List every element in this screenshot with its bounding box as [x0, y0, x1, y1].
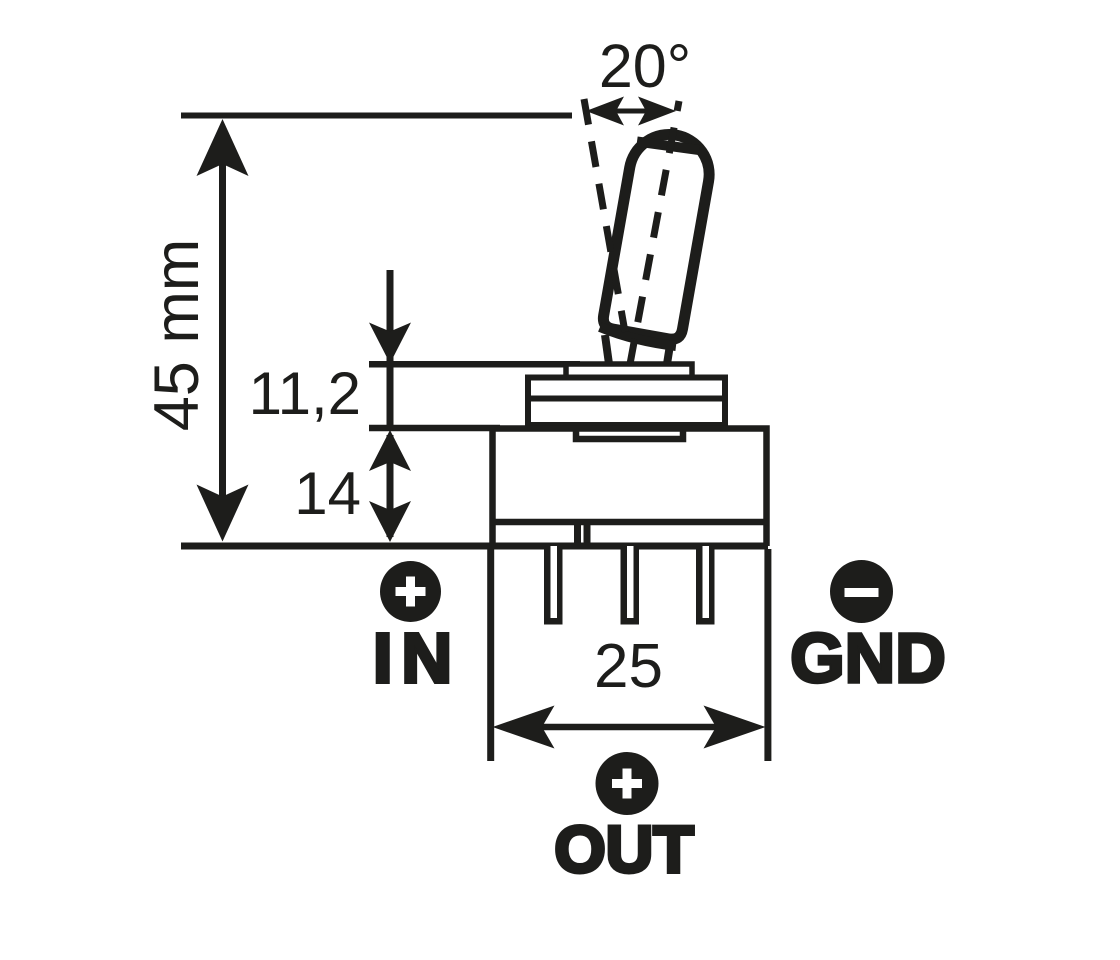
arrowhead 25 right [704, 706, 766, 749]
pin 3 [696, 546, 715, 625]
svg-text:45 mm: 45 mm [142, 239, 212, 432]
dashed throw line left [584, 99, 625, 332]
switch body outline [493, 429, 767, 547]
lever bottom band [600, 327, 676, 346]
OUT plus circle [596, 752, 659, 815]
GND minus circle [830, 560, 893, 623]
arrowhead 20deg right [638, 97, 676, 126]
lever neck right [667, 345, 670, 364]
washer plate [566, 364, 692, 378]
dimension 14 vertical line [387, 435, 394, 537]
arrowhead 14 up [369, 430, 411, 471]
lever neck left [605, 335, 609, 364]
IN plus circle [380, 561, 441, 622]
dashed lever axis line [630, 101, 679, 364]
svg-text:25: 25 [594, 632, 663, 701]
extension line at washer top (11,2 upper) [369, 361, 580, 368]
arrowhead 20deg left [586, 97, 624, 126]
wire: top horizontal reference line [181, 113, 572, 119]
arrowhead 45mm top [197, 119, 249, 176]
dimension 11,2 vertical line [387, 270, 394, 428]
arrowhead 14 down [369, 501, 411, 542]
arrowhead 11,2 pointing down [369, 323, 411, 364]
body bottom line [490, 519, 769, 526]
nut divider line [525, 396, 728, 402]
wire: bottom horizontal reference line [181, 543, 768, 550]
svg-text:11,2: 11,2 [249, 360, 361, 427]
toggle lever [602, 128, 716, 341]
20 degree arrow shaft [604, 109, 658, 114]
pin 2 [621, 546, 640, 625]
lever cap chord [637, 142, 699, 151]
svg-text:OUT: OUT [554, 812, 693, 886]
extension line at body top (11,2 lower / 14 upper) [369, 425, 500, 432]
svg-text:14: 14 [294, 460, 361, 527]
svg-text:GND: GND [790, 619, 946, 697]
extension line body right [764, 549, 771, 761]
arrowhead 45mm bottom [197, 485, 249, 542]
dimension 45 mm vertical line [219, 150, 226, 510]
svg-text:IN: IN [373, 619, 461, 697]
base tick marks [574, 522, 581, 546]
hex nut [528, 378, 725, 426]
arrowhead 25 left [493, 706, 555, 749]
pin 1 [544, 546, 563, 625]
svg-text:20°: 20° [599, 32, 691, 100]
extension line body left [487, 549, 494, 761]
dimension 25 arrow shaft [510, 724, 748, 731]
